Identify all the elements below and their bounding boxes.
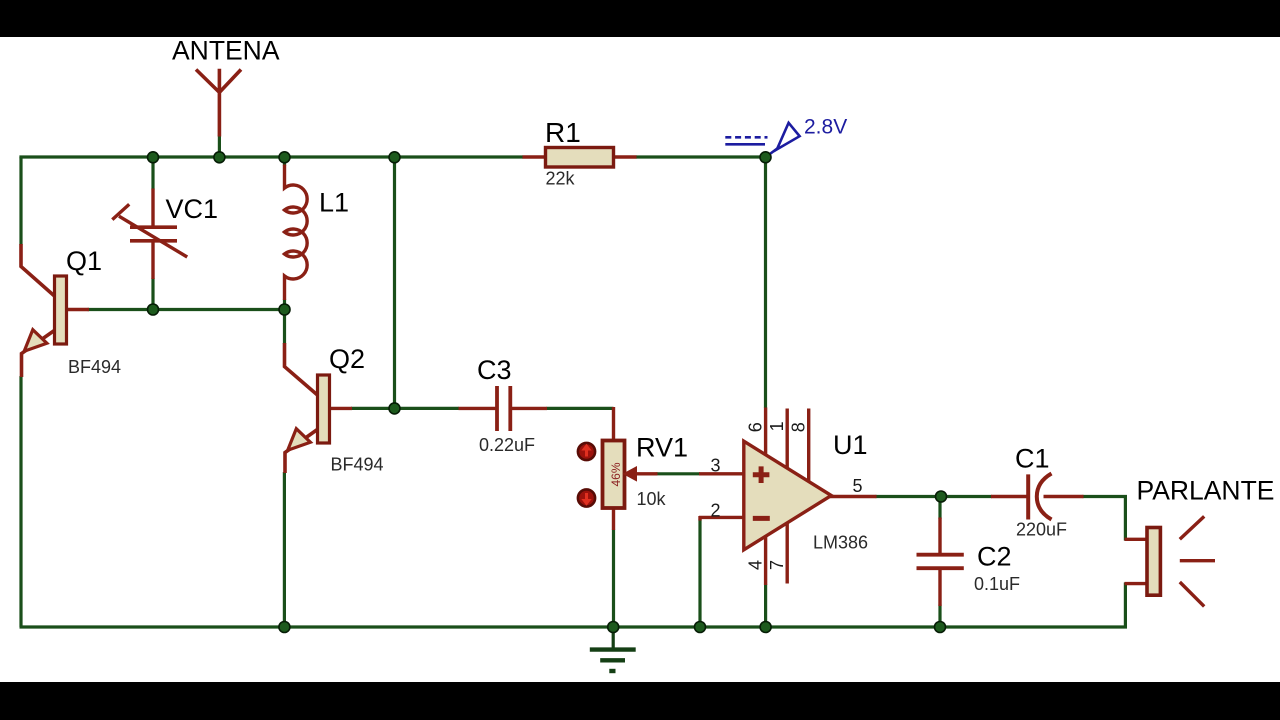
transistor Q2 base lead (330, 407, 352, 410)
junction at ground rail / Q2 emitter (279, 622, 290, 633)
junction at antenna stem (214, 152, 225, 163)
transistor Q2 emitter lead (285, 429, 318, 473)
transistor Q1 collector lead (21, 244, 55, 297)
svg-text:BF494: BF494 (331, 455, 384, 475)
wire: bottom ground rail (20, 625, 1128, 628)
capacitor C1 straight plate (1026, 474, 1030, 519)
transistor Q1 base lead (67, 308, 90, 311)
junction at antenna / VC1 top (148, 152, 159, 163)
junction at VC1 bottom / Q1 base (148, 304, 159, 315)
svg-text:220uF: 220uF (1016, 520, 1067, 540)
op-amp U1 pin 8 lead (807, 409, 810, 483)
svg-text:10k: 10k (637, 489, 667, 509)
capacitor C1 leads (991, 495, 1084, 498)
wire: output pin 5 to C2 node (876, 495, 993, 498)
svg-text:Q2: Q2 (329, 344, 365, 374)
svg-text:4: 4 (746, 560, 766, 570)
wire: left vertical lower (Q1 emitter to ground rail) (19, 376, 22, 627)
wire: C2 bottom stub (938, 605, 941, 628)
potentiometer RV1 top pin (612, 407, 615, 441)
svg-text:PARLANTE: PARLANTE (1137, 476, 1275, 506)
ground symbol (590, 627, 636, 671)
svg-text:C1: C1 (1015, 444, 1050, 474)
wire: pin 4 down to ground rail (764, 585, 767, 628)
transistor Q1 emitter lead (22, 330, 56, 377)
speaker LS1 body bar (1147, 528, 1160, 596)
wire: Q1 base wire to tank junctions (88, 308, 287, 311)
wire: left vertical upper (Q1 collector net) (19, 157, 22, 245)
wire: C1 to speaker corner (1083, 497, 1126, 541)
potentiometer RV1 wiper arrow (636, 472, 658, 475)
svg-text:6: 6 (746, 422, 766, 432)
resistor R1 body (546, 148, 614, 168)
svg-text:C3: C3 (477, 355, 512, 385)
speaker LS1 bottom terminal lead (1125, 582, 1148, 585)
junction at ground rail / C2 bottom (935, 622, 946, 633)
op-amp U1 minus input marker (753, 516, 770, 521)
svg-text:1: 1 (767, 421, 787, 431)
power flag 2.8V (725, 123, 799, 157)
wire: pin 2 vertical down to ground rail (698, 520, 701, 628)
wire: L1 bottom stub (283, 299, 286, 311)
op-amp U1 pin 1 lead (786, 409, 789, 470)
potentiometer RV1 decrement button (578, 489, 595, 506)
wire: vertical from top rail to Q2 base node (393, 157, 396, 408)
svg-text:2: 2 (711, 501, 721, 521)
svg-text:0.1uF: 0.1uF (974, 574, 1020, 594)
wire: RV1 wiper to pin 3 middle segment (657, 472, 701, 475)
antenna symbol (196, 69, 241, 137)
wire: VC1 top stub (151, 157, 154, 190)
svg-text:Q1: Q1 (66, 246, 102, 276)
wire: RV1 bottom to ground rail (612, 530, 615, 628)
wire: VC1 bottom stub (151, 278, 154, 310)
junction at power flag node (760, 152, 771, 163)
speaker LS1 sound waves (1180, 516, 1215, 606)
wire: Q2 emitter to ground rail (283, 472, 286, 627)
svg-text:RV1: RV1 (636, 433, 688, 463)
capacitor C1 curved plate (1037, 474, 1052, 520)
svg-text:7: 7 (767, 560, 787, 570)
op-amp U1 pin 3 lead (699, 472, 744, 475)
svg-text:0.22uF: 0.22uF (479, 435, 535, 455)
op-amp U1 pin 6 lead (764, 408, 767, 457)
svg-text:BF494: BF494 (68, 357, 121, 377)
op-amp U1 pin 7 lead (786, 522, 789, 584)
junction at Q2 base node (389, 403, 400, 414)
potentiometer RV1 increment button (578, 443, 595, 460)
capacitor C3 plates (497, 386, 510, 431)
wire: power rail down to pin 6 (764, 157, 767, 408)
capacitor C2 leads (938, 518, 941, 607)
transistor Q2 base bar (318, 375, 330, 443)
svg-text:46%: 46% (609, 462, 623, 486)
junction at output / C2 node (936, 491, 947, 502)
svg-text:U1: U1 (833, 430, 868, 460)
svg-text:LM386: LM386 (813, 533, 868, 553)
wire: speaker bottom terminal to ground rail (1124, 583, 1127, 629)
svg-text:VC1: VC1 (166, 194, 219, 224)
wire: C3 to RV1 corner (547, 407, 614, 410)
wire: L1 top stub (283, 157, 286, 166)
wire: antenna stem lower stub (218, 136, 221, 159)
potentiometer RV1 body (603, 441, 625, 509)
wire: top rail right segment R1 to power flag (636, 155, 766, 158)
transistor Q1 base bar (55, 276, 67, 344)
svg-text:2.8V: 2.8V (804, 116, 847, 139)
capacitor C2 plates (917, 555, 964, 569)
resistor R1 leads (523, 155, 637, 158)
svg-text:22k: 22k (546, 169, 576, 189)
svg-text:8: 8 (789, 422, 809, 432)
op-amp U1 pin 5 output lead (830, 495, 877, 498)
inductor L1 (285, 165, 308, 301)
svg-text:ANTENA: ANTENA (172, 36, 280, 66)
junction at top rail / Q2 base branch (389, 152, 400, 163)
junction at ground rail / pin 4 branch (760, 622, 771, 633)
svg-text:5: 5 (853, 476, 863, 496)
junction at L1 bottom (279, 304, 290, 315)
wire: top rail left segment (node VCC rail) (21, 157, 523, 159)
wire: Q2 collector stub (283, 308, 286, 344)
wire: Q2 base to C3 (351, 407, 459, 410)
transistor Q2 collector lead (285, 343, 319, 396)
op-amp U1 body triangle (744, 441, 832, 550)
svg-text:3: 3 (711, 456, 721, 476)
capacitor C3 leads (459, 407, 548, 410)
op-amp U1 pin 4 lead (764, 535, 767, 585)
junction at ground rail / ground symbol (608, 622, 619, 633)
potentiometer RV1 bottom pin (612, 508, 615, 531)
speaker LS1 top terminal lead (1125, 538, 1148, 541)
wire: C2 top stub (938, 497, 941, 519)
transistor Q1 emitter arrow (24, 330, 47, 352)
junction at L1 top (279, 152, 290, 163)
op-amp U1 pin 2 lead (699, 516, 744, 521)
transistor Q2 emitter arrow (288, 429, 311, 451)
svg-text:R1: R1 (545, 117, 581, 148)
svg-text:L1: L1 (319, 188, 349, 218)
capacitor VC1 (variable) (112, 189, 187, 280)
svg-text:C2: C2 (977, 542, 1012, 572)
junction at ground rail / pin 2 branch (695, 622, 706, 633)
op-amp U1 plus input marker (753, 466, 770, 483)
